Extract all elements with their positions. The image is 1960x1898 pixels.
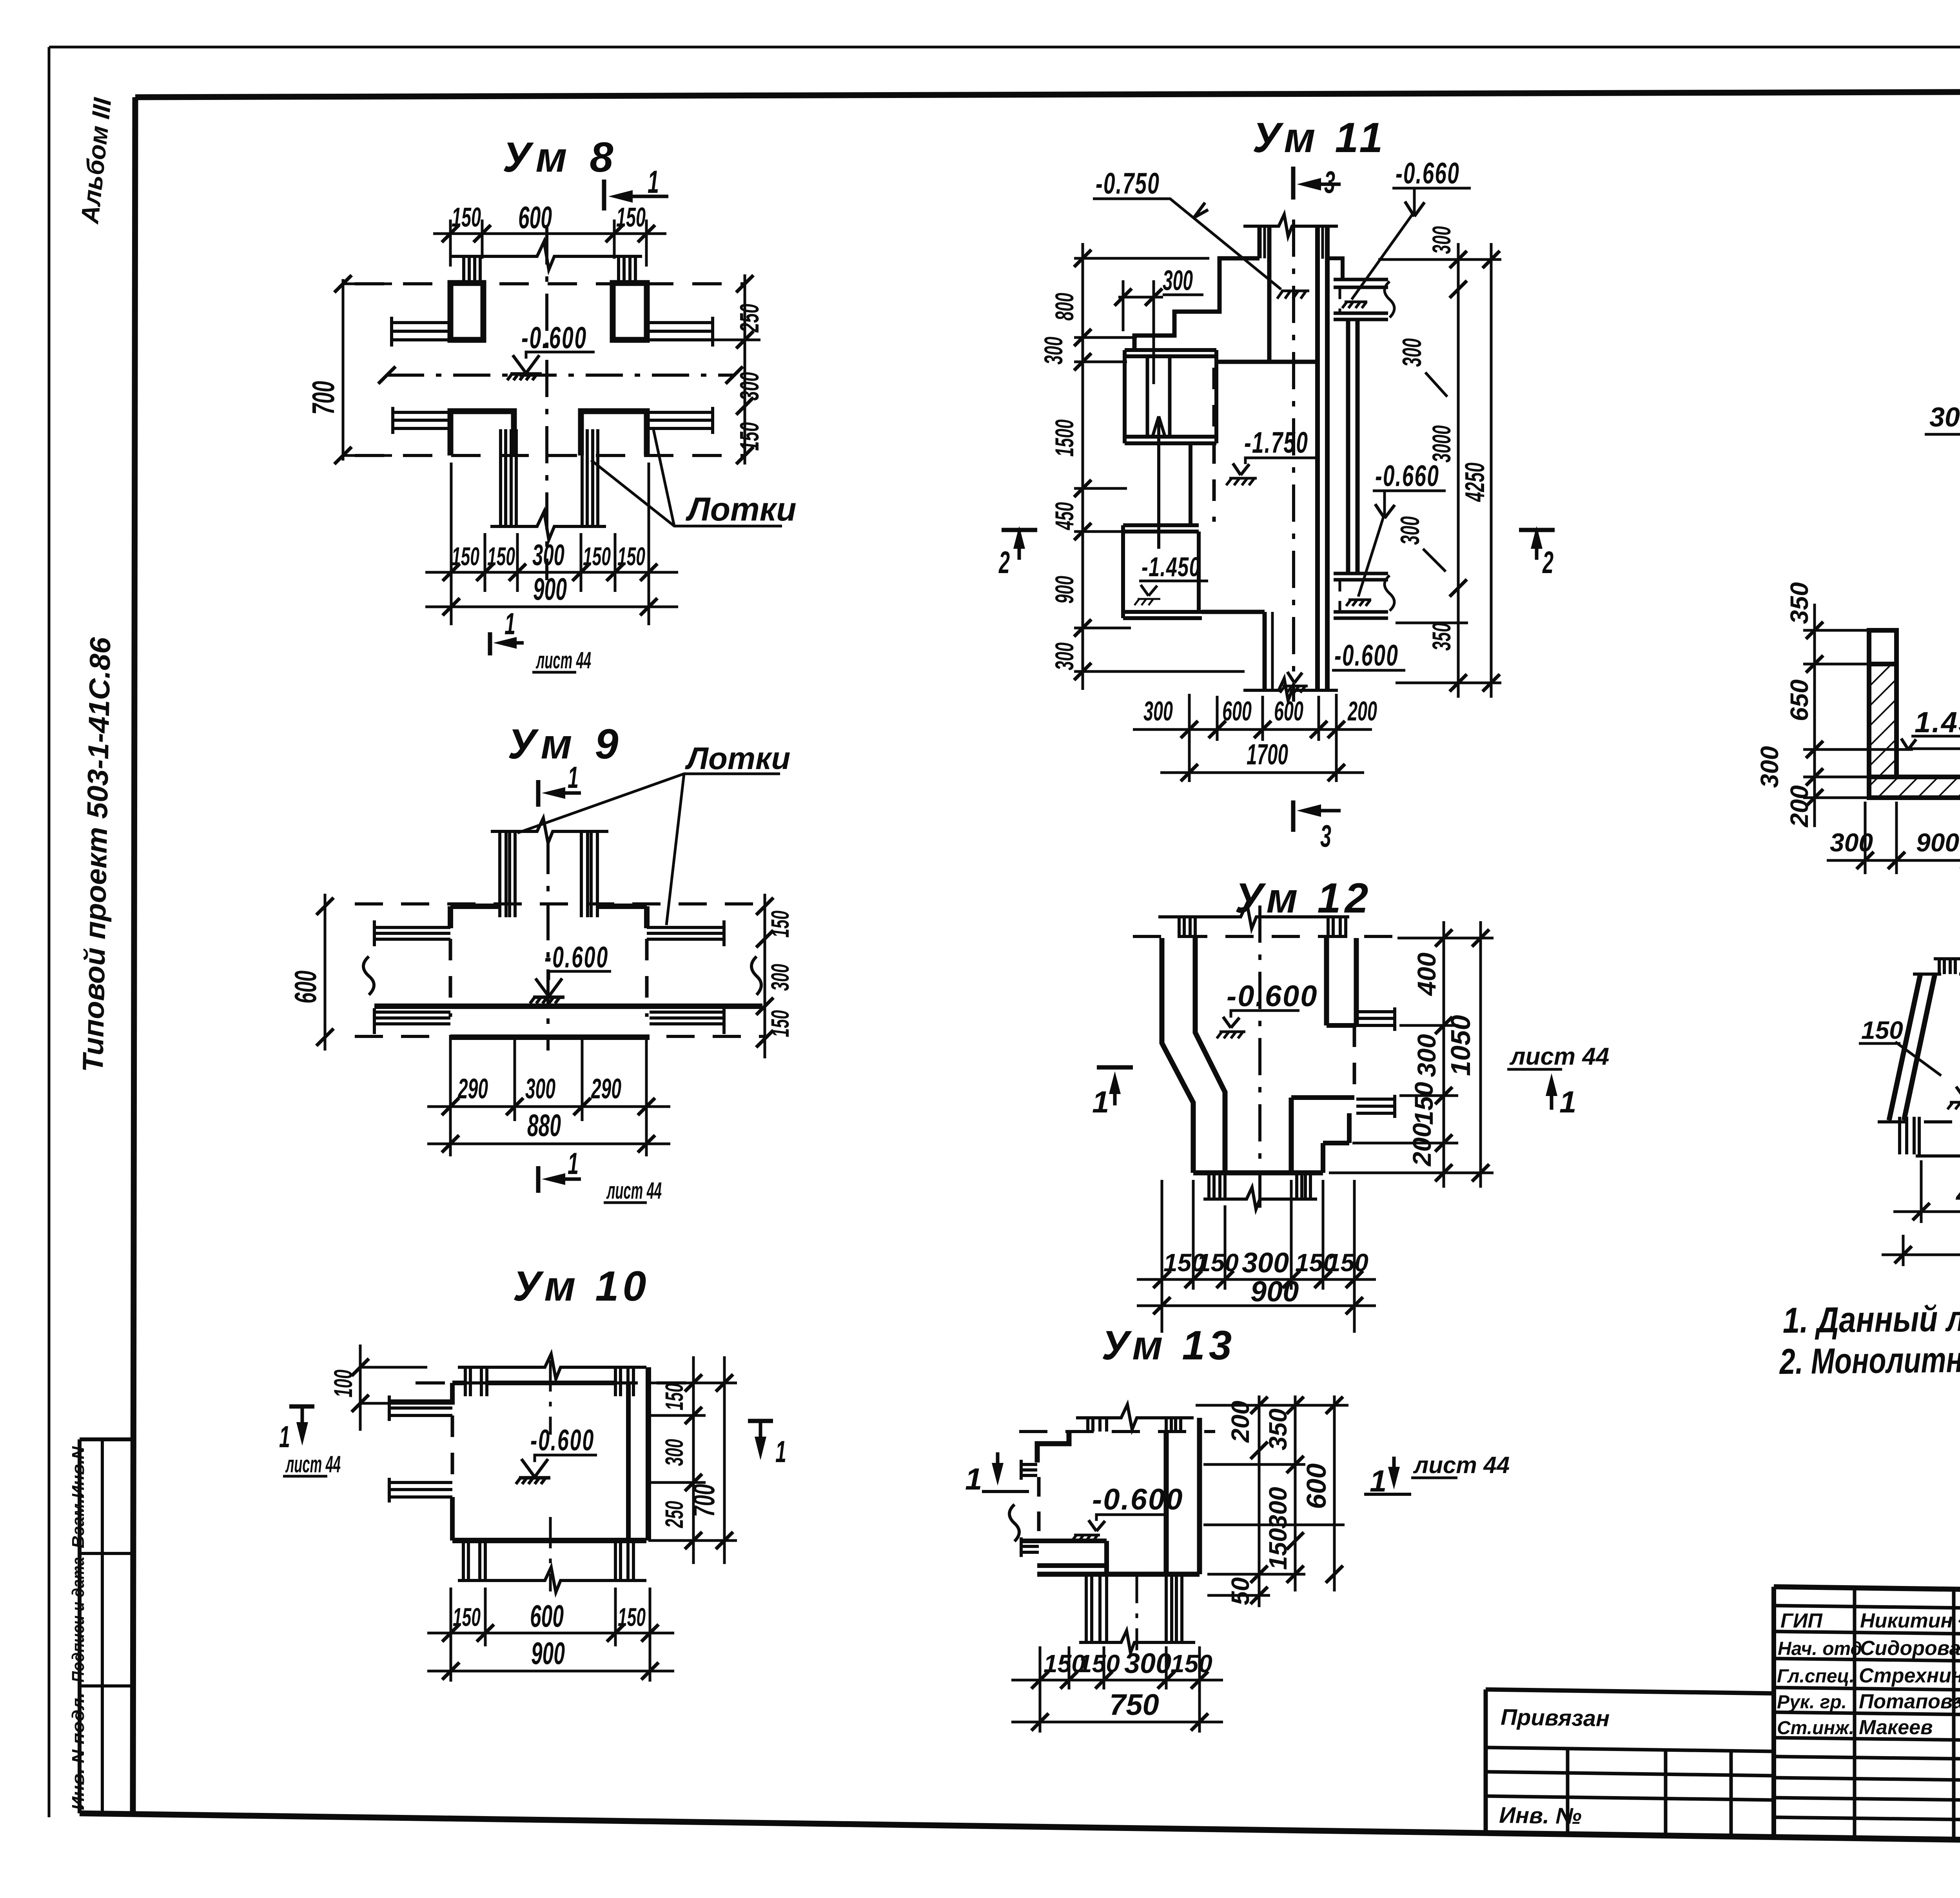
3-3 bottom slab hatched: [1869, 777, 1960, 798]
svg-text:700: 700: [306, 381, 341, 415]
Um10 body bottom edge: [452, 1538, 646, 1543]
Um9 body bottom edge: [450, 1034, 650, 1040]
Um11 top stem walls: [1258, 226, 1262, 258]
Um11 section mark 2 left: [1002, 528, 1037, 532]
Um13 right dim chain B: [1294, 1395, 1297, 1591]
svg-text:300: 300: [1412, 1034, 1441, 1077]
svg-text:3000: 3000: [1427, 425, 1456, 463]
Um9 stem lotki walls: [500, 831, 515, 917]
Um9 upper dashed axis: [355, 902, 768, 905]
svg-text:800: 800: [1050, 293, 1079, 321]
Um12 bottom dim 150-150-300-150-150: [1137, 1278, 1376, 1281]
svg-text:300: 300: [1163, 265, 1193, 296]
Um8 bottom dim row 150-150-300-150-150: [425, 571, 678, 574]
Um8 bottom lotki walls: [501, 429, 516, 526]
svg-text:-0.660: -0.660: [1396, 157, 1460, 190]
svg-text:150: 150: [1264, 1528, 1292, 1570]
Um10 right dim chain 150-300-250: [648, 1383, 737, 1541]
Um13 bottom extension lines: [1040, 1646, 1200, 1733]
left stamp column: [78, 1439, 82, 1813]
Um8 right dim chain 250-300-150: [744, 274, 746, 465]
Um10 left edge lower solid: [450, 1497, 455, 1541]
Um8 bottom extension lines: [451, 463, 649, 625]
svg-text:300: 300: [1427, 226, 1456, 254]
Um12 bottom edge: [1193, 1170, 1323, 1176]
Um10 section mark 1 right: [748, 1419, 773, 1423]
Um8 central vertical axis: [545, 227, 548, 580]
svg-text:1: 1: [505, 606, 515, 641]
Um13 bottom dim 150-150-300-150: [1011, 1679, 1223, 1682]
Um12 right dim chain 400-300-150-200: [1443, 921, 1445, 1188]
Um13 bottom cap with break: [1079, 1631, 1195, 1653]
svg-text:300: 300: [1830, 828, 1873, 857]
Um8 bottom-right block: [581, 411, 647, 455]
Um10 right wall double line: [626, 1383, 631, 1541]
Um8 section mark 1 bottom: [488, 632, 492, 655]
Um11 bottom dim 1700: [1160, 771, 1364, 774]
Um13 upper-left step: [1037, 1432, 1069, 1463]
Um8 upper dashed axis: [355, 282, 745, 285]
Um10 center axis segments: [549, 1360, 552, 1435]
Um11 section mark 2 right: [1519, 528, 1555, 532]
svg-text:150: 150: [618, 1602, 646, 1631]
svg-text:-1.450: -1.450: [1142, 552, 1201, 582]
svg-text:1: 1: [648, 164, 659, 200]
Um8 top-left flange channel: [392, 323, 450, 340]
svg-text:600: 600: [1274, 696, 1303, 726]
svg-text:50: 50: [1226, 1577, 1254, 1605]
Um10 dashed axis: [416, 1381, 702, 1384]
Um8 bottom-left block: [450, 411, 514, 455]
svg-text:3: 3: [1324, 165, 1335, 200]
svg-text:600: 600: [530, 1599, 564, 1633]
svg-text:Никитин: Никитин: [1860, 1609, 1953, 1632]
Um11 central wall pair (full height): [1315, 226, 1320, 690]
svg-text:-1.750: -1.750: [1244, 426, 1308, 459]
svg-text:300: 300: [735, 372, 764, 401]
Um10 left edge dashed (hidden): [451, 1415, 454, 1482]
svg-text:1: 1: [1092, 1085, 1109, 1119]
svg-text:350: 350: [1264, 1408, 1292, 1450]
Um10 bottom lotki walls: [463, 1541, 485, 1580]
Um9 section mark 1 top: [536, 780, 541, 807]
svg-text:1: 1: [279, 1419, 290, 1454]
svg-text:1. Данный лист см. с листам: 1. Данный лист см. с листами 15, 16, 87.…: [1782, 1293, 1960, 1341]
svg-text:Сидорова: Сидорова: [1860, 1637, 1960, 1660]
Um12 lower right step block: [1291, 1095, 1354, 1100]
svg-text:150: 150: [660, 1383, 688, 1410]
svg-text:1700: 1700: [1247, 738, 1288, 771]
Um10 section mark 1 left: [289, 1404, 314, 1409]
svg-text:Ум 12: Ум 12: [1235, 874, 1372, 922]
svg-text:-0.600: -0.600: [1092, 1483, 1184, 1516]
svg-text:лист 44: лист 44: [535, 647, 591, 673]
svg-text:ГИП: ГИП: [1780, 1609, 1823, 1632]
Um11 section mark 3 bottom: [1291, 800, 1296, 832]
svg-text:700: 700: [686, 1484, 721, 1517]
svg-text:600: 600: [1222, 696, 1252, 726]
signature table row lines: [1774, 1606, 1960, 1609]
Um8 section mark 1 top: [602, 180, 606, 210]
Um8 bottom-right flange channel: [647, 412, 713, 428]
Um14 dashed axis: [1913, 973, 1960, 976]
Um13 top lotki walls: [1088, 1418, 1107, 1432]
Um13 dashed axis: [1019, 1430, 1215, 1433]
svg-text:-0.600: -0.600: [521, 320, 587, 355]
Um9 body top edges: [450, 904, 647, 909]
Um14 slanted left wall: [1889, 974, 1920, 1120]
svg-text:400: 400: [1412, 953, 1441, 996]
Um14 bottom edge with break: [1916, 1144, 1960, 1166]
svg-text:2. Монолитные участки выполн: 2. Монолитные участки выполнять из бетон…: [1779, 1334, 1960, 1382]
svg-text:250: 250: [735, 304, 764, 333]
svg-text:450: 450: [1050, 502, 1079, 530]
svg-text:300: 300: [532, 539, 564, 572]
Um10 lower-left flange channel: [389, 1482, 452, 1497]
Um11 bottom dim 300-600-600-200: [1133, 728, 1372, 731]
svg-text:Нач. отд: Нач. отд: [1778, 1639, 1862, 1659]
svg-text:450: 450: [1955, 1179, 1960, 1209]
svg-text:-0.660: -0.660: [1375, 459, 1439, 493]
svg-text:лист 44: лист 44: [606, 1178, 662, 1204]
Um10 bottom extension lines: [451, 1588, 650, 1682]
Um12 left wall inner line: [1195, 938, 1225, 1173]
svg-text:900: 900: [1916, 828, 1959, 857]
Um9 bottom dim 880: [427, 1143, 670, 1145]
Um9 stem center axis: [546, 837, 550, 1051]
Um11 right wall pair: [1346, 319, 1350, 573]
Um11 top-right step: [1327, 258, 1343, 279]
Um9 body left edge: [448, 906, 453, 928]
Um9 upper-left flange channel: [374, 927, 450, 939]
Um8 bottom-left flange channel: [393, 412, 450, 428]
svg-text:Лотки: Лотки: [685, 741, 790, 776]
svg-text:2: 2: [998, 545, 1010, 580]
Um9 arm bottom edge: [374, 1003, 762, 1009]
Um10 upper-left flange channel: [389, 1401, 452, 1415]
svg-text:300: 300: [1397, 338, 1427, 367]
svg-text:Ум 13: Ум 13: [1102, 1323, 1236, 1368]
Um11 bottom stem walls: [1263, 612, 1267, 690]
Um8 top arm cut line with break: [450, 241, 642, 270]
Um13 left hidden edge dashed: [1037, 1477, 1041, 1541]
svg-text:300: 300: [1242, 1247, 1289, 1279]
Um8 bottom dim 900: [425, 606, 678, 608]
Um10 body top-left step: [450, 1383, 455, 1403]
svg-text:Типовой проект 503-1-41С.86: Типовой проект 503-1-41С.86: [76, 637, 116, 1072]
Um11 lower right lotki band: [1334, 573, 1388, 580]
svg-text:1: 1: [1559, 1085, 1576, 1119]
Um9 left break squiggle: [363, 956, 374, 995]
Um9 lower-right flange channel: [650, 1012, 724, 1024]
svg-text:900: 900: [1050, 576, 1079, 604]
3-3 bottom extensions: [1865, 781, 1960, 874]
Um13 central channel walls: [1164, 1432, 1169, 1574]
svg-text:1: 1: [965, 1462, 982, 1496]
Um11 section mark 3 top: [1291, 167, 1296, 200]
svg-text:Рук. гр.: Рук. гр.: [1777, 1692, 1847, 1713]
svg-text:Ум 10: Ум 10: [513, 1262, 650, 1310]
Um12 central axis: [1258, 905, 1261, 1215]
svg-text:1: 1: [775, 1434, 786, 1469]
Um8 top dim row 150-600-150: [433, 232, 666, 235]
Um11 upper right lotki band: [1334, 279, 1388, 287]
svg-text:200: 200: [1407, 1123, 1436, 1167]
svg-text:300: 300: [1050, 642, 1079, 670]
svg-text:-0.600: -0.600: [544, 941, 609, 974]
svg-text:900: 900: [1250, 1275, 1299, 1308]
svg-text:1.450: 1.450: [1915, 706, 1960, 739]
title block texts: [1777, 1609, 1960, 1739]
svg-text:150: 150: [766, 911, 794, 938]
svg-text:лист 44: лист 44: [1413, 1452, 1510, 1478]
svg-text:Гл.спец.: Гл.спец.: [1777, 1666, 1855, 1687]
Um14 top lotki walls: [1939, 959, 1955, 974]
svg-text:900: 900: [531, 1636, 565, 1671]
svg-text:350: 350: [1785, 582, 1813, 624]
Um8 top-left block: [450, 283, 483, 340]
Um10 bottom cap line with break: [458, 1567, 646, 1592]
svg-text:300: 300: [1755, 746, 1784, 788]
signature table verticals: [1771, 1587, 1776, 1837]
svg-text:150: 150: [1197, 1248, 1239, 1277]
svg-text:1500: 1500: [1050, 419, 1079, 457]
Um11 bottom stem cap with break: [1243, 679, 1338, 700]
3-3 bottom dim 300-900-450-1500-300-800: [1827, 859, 1960, 862]
svg-text:150: 150: [735, 422, 764, 451]
svg-text:300: 300: [1264, 1487, 1292, 1529]
Um11 upper left chamber: [1125, 350, 1216, 356]
Um12 left wall outer line: [1162, 938, 1193, 1173]
Um12 right extension lines: [1329, 938, 1494, 1173]
left attach table: [1486, 1689, 1774, 1693]
svg-text:Инв. N подл.: Инв. N подл.: [69, 1693, 88, 1810]
svg-text:150: 150: [616, 202, 646, 232]
Um13 bottom lotki walls: [1086, 1574, 1107, 1642]
svg-text:880: 880: [527, 1108, 561, 1143]
Um12 bottom cap with break: [1203, 1187, 1317, 1209]
Um8 top lotki walls: [464, 256, 480, 283]
Um12 bottom extension lines: [1162, 1180, 1354, 1333]
Um12 dashed axis: [1133, 935, 1396, 938]
Um11 left dim chain: [1074, 257, 1209, 260]
Um11 stem top cap with break: [1243, 214, 1338, 236]
svg-text:лист 44: лист 44: [285, 1451, 341, 1477]
Um13 top cut line with break: [1076, 1404, 1194, 1430]
Um14 bottom dim 450-150-150: [1893, 1210, 1960, 1213]
3-3 left dim chain: [1803, 630, 1913, 798]
svg-text:Ст.инж.: Ст.инж.: [1777, 1718, 1854, 1738]
Um9 section mark 1 bottom: [536, 1166, 541, 1193]
Um10 top lotki walls: [465, 1367, 487, 1396]
Um14 top cut line with break: [1934, 947, 1960, 969]
Um11 central axis: [1292, 220, 1295, 702]
svg-text:150: 150: [453, 1602, 481, 1631]
Um12 right dim 1050: [1479, 921, 1482, 1188]
svg-text:300: 300: [1143, 696, 1173, 726]
svg-text:300: 300: [1124, 1648, 1171, 1679]
Um8 bottom cap line with break: [490, 512, 606, 540]
svg-text:900: 900: [533, 572, 567, 606]
svg-text:Макеев: Макеев: [1859, 1716, 1933, 1739]
svg-text:4250: 4250: [1459, 463, 1490, 502]
Um13 lower-left flange strips: [1021, 1539, 1107, 1543]
Um12 right upper lotki strip: [1356, 1012, 1395, 1025]
Um11 right dim chains: [1378, 258, 1501, 261]
Um12 section mark 1 left: [1097, 1065, 1133, 1070]
svg-text:-0.600: -0.600: [1227, 980, 1318, 1013]
Um8 center axis: [387, 374, 734, 377]
Um14 bottom dim 750: [1882, 1254, 1960, 1256]
svg-text:1: 1: [568, 760, 579, 795]
Um9 lower dashed axis: [355, 1035, 768, 1038]
Um13 bottom edge: [1037, 1572, 1200, 1577]
Um9 body right edge: [644, 906, 650, 928]
Um13 bottom dim 750: [1011, 1721, 1223, 1724]
signatures squiggles: [1958, 1612, 1960, 1755]
3-3 left wall top unhatched part: [1869, 630, 1896, 664]
svg-text:290: 290: [457, 1073, 488, 1105]
svg-text:-0.600: -0.600: [530, 1424, 595, 1457]
svg-text:Стрехнин: Стрехнин: [1859, 1664, 1960, 1687]
svg-text:Лотки: Лотки: [685, 491, 797, 528]
Um9 stem cap line with break: [491, 818, 608, 843]
svg-text:Ум 9: Ум 9: [508, 720, 624, 768]
svg-text:200: 200: [1347, 696, 1377, 726]
inner thick border: [135, 90, 1960, 97]
svg-text:150: 150: [452, 542, 479, 571]
Um8 left dim 700: [342, 279, 345, 461]
svg-text:300: 300: [1395, 516, 1425, 545]
Um11 lower left chamber: [1123, 525, 1199, 532]
Um9 left dim 600: [324, 894, 327, 1051]
Um9 bottom dim 290-300-290: [427, 1105, 670, 1108]
Um11 flow arrow in chamber: [1157, 419, 1160, 549]
Um13 bottom center axis: [1136, 1572, 1138, 1650]
Um11 central region: [1216, 360, 1318, 364]
Um8 top-right flange channel: [647, 323, 713, 340]
outer thin frame top: [49, 46, 1960, 49]
Um13 left lotki strip upper: [1021, 1464, 1037, 1475]
svg-text:Привязан: Привязан: [1501, 1704, 1610, 1731]
Um10 right dim 700: [723, 1356, 726, 1564]
svg-text:750: 750: [1109, 1688, 1159, 1722]
Um10 dim 100 top-left: [359, 1345, 362, 1431]
Um12 top lotki walls: [1179, 917, 1195, 938]
Um10 bottom dim 900: [427, 1670, 674, 1673]
outer thin frame left: [48, 47, 51, 1817]
svg-text:600: 600: [288, 971, 323, 1003]
Um8 lower dashed axis: [355, 454, 745, 457]
Um10 bottom dim 150-600-150: [427, 1632, 674, 1635]
Um12 bottom dim 900: [1137, 1305, 1376, 1307]
Um11 step between chambers: [1189, 443, 1192, 525]
Um13 right extension lines: [1196, 1405, 1348, 1595]
Um14 lower dashed axis: [1878, 1120, 1960, 1123]
Um12 lower right lotki strip: [1356, 1099, 1395, 1113]
svg-text:300: 300: [1929, 402, 1960, 432]
svg-text:200: 200: [1226, 1401, 1254, 1443]
svg-text:150: 150: [583, 542, 611, 571]
svg-text:650: 650: [1785, 679, 1813, 721]
Um9 right dim chain 150-300-150: [764, 894, 766, 1058]
svg-text:Альбом III: Альбом III: [75, 96, 117, 225]
svg-text:150: 150: [1078, 1649, 1120, 1678]
svg-text:250: 250: [660, 1501, 688, 1528]
svg-text:-0.600: -0.600: [1334, 639, 1399, 672]
svg-text:150: 150: [766, 1010, 794, 1037]
Um10 top cut line with break: [458, 1354, 646, 1379]
title block outline top: [1774, 1587, 1960, 1598]
svg-text:150: 150: [617, 542, 645, 571]
Um12 right upper block: [1327, 938, 1356, 1025]
svg-text:300: 300: [660, 1439, 688, 1466]
svg-text:600: 600: [1301, 1463, 1332, 1509]
Um14 bottom-left lotki: [1900, 1117, 1919, 1154]
Um12 bottom lotki walls: [1209, 1173, 1225, 1199]
3-3 left wall hatched: [1869, 664, 1896, 777]
svg-text:лист 44: лист 44: [1509, 1043, 1609, 1070]
Um12 right hidden edge dashed: [1353, 1025, 1356, 1098]
Um11 left step cascade: [1134, 258, 1259, 350]
svg-text:-0.750: -0.750: [1096, 167, 1160, 200]
svg-text:Взам.Инв.N: Взам.Инв.N: [69, 1446, 88, 1548]
Um12 top cut line with break: [1158, 904, 1349, 929]
svg-text:1: 1: [568, 1146, 579, 1181]
svg-text:Подписи и дата: Подписи и дата: [69, 1557, 88, 1682]
Um9 right break squiggle: [751, 956, 761, 995]
svg-text:300: 300: [1039, 337, 1068, 365]
svg-text:Потапова: Потапова: [1859, 1690, 1960, 1713]
Um13 left break squiggle: [1009, 1504, 1019, 1541]
svg-text:200: 200: [1785, 785, 1813, 827]
svg-text:350: 350: [1427, 623, 1456, 651]
svg-text:Ум 11: Ум 11: [1252, 114, 1387, 161]
svg-text:300: 300: [525, 1073, 555, 1105]
svg-text:300: 300: [766, 964, 794, 991]
svg-text:150: 150: [1327, 1248, 1368, 1277]
svg-text:150: 150: [1171, 1649, 1212, 1678]
Um9 upper-right flange channel: [647, 927, 724, 939]
svg-text:150: 150: [1861, 1016, 1903, 1044]
svg-text:150: 150: [487, 542, 515, 571]
Um9 lower-left flange channel: [374, 1012, 450, 1024]
Um13 right dim chain C 600: [1333, 1395, 1336, 1591]
Um8 top-right block: [613, 283, 647, 340]
svg-text:150: 150: [452, 202, 481, 232]
Um14 bottom extensions: [1903, 1160, 1960, 1266]
Um13 right dim chain A: [1258, 1395, 1261, 1607]
2-2 bottom dim 300-1200-300: [1925, 433, 1960, 436]
svg-text:3: 3: [1320, 818, 1331, 853]
svg-text:Ум 8: Ум 8: [503, 133, 619, 181]
Um11 bottom extension lines: [1189, 694, 1336, 782]
svg-text:Инв. №: Инв. №: [1499, 1802, 1582, 1829]
svg-text:150: 150: [1409, 1082, 1438, 1125]
svg-text:290: 290: [591, 1073, 621, 1105]
svg-text:100: 100: [328, 1370, 358, 1397]
svg-text:2: 2: [1542, 545, 1553, 580]
Um9 bottom extension lines: [450, 1035, 646, 1156]
svg-text:1050: 1050: [1445, 1015, 1476, 1076]
